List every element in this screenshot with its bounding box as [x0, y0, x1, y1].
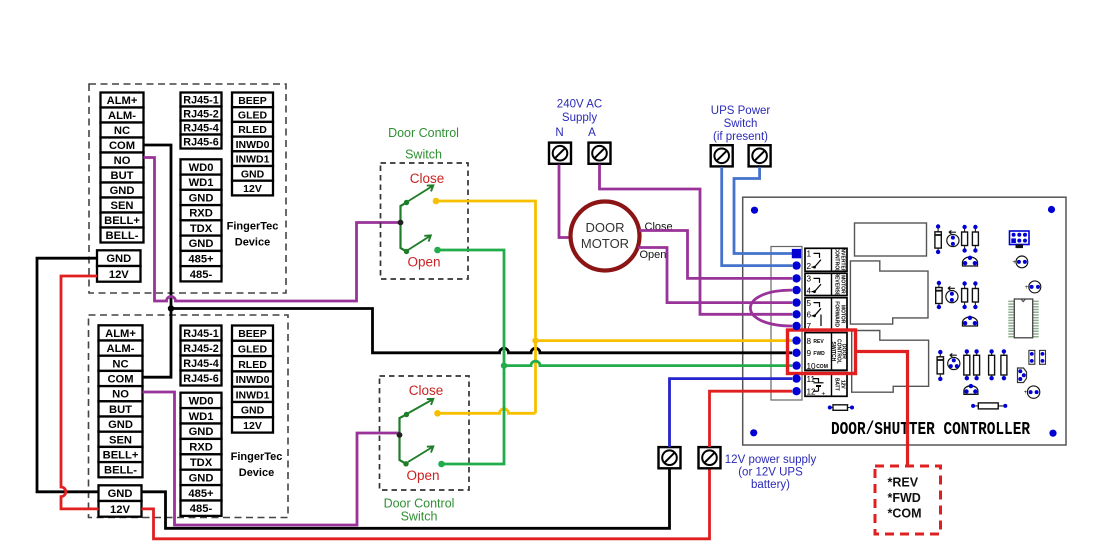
svg-text:A: A [588, 127, 596, 139]
svg-text:RJ45-1: RJ45-1 [183, 95, 218, 107]
terminal UPS-1 [711, 145, 733, 166]
pin RJ45-4 (dev1-rj) [181, 121, 222, 135]
diode D2 dome [963, 316, 978, 326]
wire purple NO device1 to door control switch 1 (jump over black) [144, 158, 401, 302]
pin GLED (dev1-led) [232, 107, 273, 122]
pad pin 4 [792, 286, 800, 294]
svg-text:INWD1: INWD1 [236, 389, 270, 401]
pin ALM- (dev2) [99, 341, 143, 356]
svg-text:COM: COM [107, 374, 133, 386]
svg-text:RLED: RLED [238, 124, 267, 136]
svg-text:GND: GND [106, 253, 131, 265]
wire red highlight to REV/FWD/COM note [856, 352, 908, 467]
svg-text:BEEP: BEEP [238, 328, 267, 340]
jumper block 1 [1029, 350, 1035, 364]
pin GND (dev1) [101, 183, 144, 198]
pin RJ45-6 (dev1-rj) [181, 135, 222, 149]
pin GND (dev2-io) [181, 470, 222, 485]
PCB corner hole top-right [1048, 206, 1055, 213]
svg-text:3: 3 [807, 275, 812, 284]
resistor R7 [937, 350, 943, 381]
svg-text:REV: REV [813, 339, 824, 345]
pin RLED (dev1-led) [232, 122, 273, 137]
terminal UPS-2 [749, 145, 771, 166]
pin WD1 (dev2-io) [181, 408, 222, 423]
pad pin 9 [792, 349, 800, 357]
pin RJ45-4 (dev2-rj) [181, 356, 222, 371]
pin WD0 (dev2-io) [181, 393, 222, 408]
pin INWD0 (dev2-led) [232, 371, 273, 386]
svg-text:RJ45-6: RJ45-6 [183, 137, 218, 149]
svg-text:Device: Device [239, 467, 274, 479]
pad pin 8 [792, 336, 800, 344]
red highlight box pins 8-10 [788, 330, 856, 374]
pin GND (dev1-io) [181, 236, 222, 251]
pin RJ45-1 (dev1-rj) [181, 93, 222, 107]
pin SEN (dev2) [99, 432, 143, 447]
pin BUT (dev1) [101, 168, 144, 183]
svg-text:RJ45-4: RJ45-4 [183, 358, 218, 370]
svg-text:BUT: BUT [111, 170, 134, 182]
svg-text:REVERSE: REVERSE [834, 272, 840, 297]
pin 485+ (dev1-io) [181, 251, 222, 266]
transistor Q1 [947, 230, 959, 246]
svg-text:GLED: GLED [238, 110, 268, 122]
pin 12V (dev2-led) [232, 417, 273, 432]
pin BELL- (dev1) [101, 228, 144, 243]
pin INWD1 (dev2-led) [232, 387, 273, 402]
svg-text:485+: 485+ [188, 254, 214, 266]
PCB corner hole top-left [751, 207, 758, 214]
diode D1 dome [963, 256, 978, 266]
battery symbol 12V BATT [813, 379, 824, 392]
pad pin 1 (square) [792, 249, 801, 258]
wire black GND link device1-device2 [37, 258, 99, 492]
terminal N [549, 143, 571, 164]
terminal 12V-1 [659, 447, 681, 468]
DCS1 junction with purple wire [398, 220, 404, 226]
svg-text:+: + [1024, 390, 1028, 396]
pin TDX (dev2-io) [181, 454, 222, 469]
pin RXD (dev2-io) [181, 439, 222, 454]
pin GLED (dev2-led) [232, 341, 273, 356]
svg-text:RXD: RXD [189, 442, 213, 454]
pin RJ45-2 (dev2-rj) [181, 341, 222, 356]
svg-text:battery): battery) [751, 479, 790, 491]
pin COM (dev1) [101, 138, 144, 153]
junction COM node [168, 305, 174, 311]
pad pin 6 [792, 310, 800, 318]
svg-text:*REV: *REV [888, 476, 919, 490]
svg-text:NO: NO [114, 155, 131, 167]
svg-text:GND: GND [189, 472, 214, 484]
svg-text:FORWARD: FORWARD [834, 301, 840, 327]
pad pin 10 [792, 361, 800, 369]
svg-text:Switch: Switch [401, 510, 438, 524]
wire black GND device2 to 12V supply terminal 1 [142, 468, 670, 529]
svg-text:UPS Power: UPS Power [711, 105, 771, 117]
pin ALM+ (dev1) [101, 93, 144, 108]
svg-text:12V power supply: 12V power supply [725, 454, 817, 466]
svg-text:12V: 12V [243, 183, 262, 195]
pin TDX (dev1-io) [181, 220, 222, 235]
transistor Q2 [1012, 256, 1027, 268]
pin NO (dev1) [101, 153, 144, 168]
svg-text:INWD0: INWD0 [236, 374, 270, 386]
transistor Q4 [1025, 281, 1041, 293]
svg-text:ALM-: ALM- [107, 343, 135, 355]
svg-text:RJ45-1: RJ45-1 [183, 328, 218, 340]
svg-text:ALM-: ALM- [108, 110, 136, 122]
pin BELL- (dev2) [99, 462, 143, 477]
controller PCB board outline [743, 197, 1066, 445]
wire purple A to controller pin 6 [600, 165, 793, 315]
svg-text:4: 4 [807, 286, 812, 295]
resistor R10 [989, 349, 995, 380]
pin RXD (dev1-io) [181, 205, 222, 220]
svg-text:GND: GND [108, 419, 133, 431]
pin INWD0 (dev1-led) [232, 137, 273, 152]
terminal 12V-2 [699, 447, 721, 468]
pin group box 12V/BATT [805, 372, 847, 396]
pad pin 11 [792, 374, 800, 382]
svg-text:RJ45-2: RJ45-2 [183, 109, 218, 121]
terminal A [589, 143, 611, 164]
svg-text:TDX: TDX [190, 457, 213, 469]
wire black COM link device1-device2 [143, 145, 172, 377]
svg-text:Close: Close [410, 171, 445, 186]
pin NC (dev2) [99, 356, 143, 371]
pin RJ45-2 (dev1-rj) [181, 107, 222, 121]
svg-text:FingerTec: FingerTec [231, 451, 283, 463]
pin WD1 (dev1-io) [181, 175, 222, 190]
svg-text:BELL+: BELL+ [103, 450, 139, 462]
svg-text:DOOR: DOOR [586, 220, 625, 235]
transistor Q6 pentagon [1018, 368, 1027, 383]
svg-text:WD0: WD0 [189, 162, 214, 174]
wire yellow into DCS2 close contact (jump over green) [438, 409, 536, 414]
DCS1 open contact dot [434, 247, 441, 254]
diode D3 dome [964, 384, 978, 394]
wire green branch to controller pin 10 (jump over yellow) [504, 361, 792, 366]
svg-text:NC: NC [112, 358, 128, 370]
svg-text:GND: GND [110, 185, 135, 197]
wire yellow close bus DCS1-DCS2 [436, 201, 536, 413]
FingerTec device 1 dashed enclosure [89, 84, 286, 293]
pin GND (dev2-io) [181, 424, 222, 439]
svg-text:RJ45-6: RJ45-6 [183, 373, 218, 385]
svg-text:MOTOR: MOTOR [581, 236, 629, 251]
jumper block 2 [1040, 350, 1046, 364]
svg-text:Door Control: Door Control [384, 497, 455, 511]
wire purple NO device2 to door control switch 2 [143, 392, 400, 525]
svg-text:1: 1 [807, 250, 812, 259]
pin GND (dev2-led) [232, 402, 273, 417]
svg-text:RXD: RXD [189, 208, 213, 220]
svg-text:485-: 485- [190, 503, 213, 515]
svg-text:12: 12 [807, 387, 817, 396]
resistor R9 [974, 349, 980, 380]
resistor R12 horizontal [971, 403, 1007, 409]
door control switch 1 dashed box [381, 163, 469, 279]
pad pin 2 [792, 261, 800, 269]
pad pin 5 [792, 298, 800, 306]
svg-text:Open: Open [407, 255, 440, 270]
svg-text:WD1: WD1 [189, 177, 214, 189]
transistor Q3 [946, 287, 958, 303]
resistor R3 [972, 225, 978, 253]
svg-text:5: 5 [807, 299, 812, 308]
svg-text:12V: 12V [243, 420, 262, 432]
svg-text:*FWD: *FWD [888, 491, 921, 505]
svg-text:Device: Device [235, 237, 270, 249]
resistor R8 [964, 349, 970, 380]
wire black COM to controller pin 9 (jumps over green+yellow) [171, 309, 792, 353]
svg-text:+: + [1025, 285, 1029, 291]
svg-text:N: N [555, 127, 563, 139]
pin BELL+ (dev1) [101, 213, 144, 228]
resistor R11 [1001, 349, 1007, 380]
relay contact symbol [812, 253, 822, 267]
relay K2 [850, 261, 928, 324]
svg-text:GND: GND [189, 238, 214, 250]
svg-text:9: 9 [807, 349, 812, 358]
resistor R4 [936, 281, 942, 309]
pin GND (dev1-pwr) [97, 250, 141, 266]
svg-text:8: 8 [807, 337, 812, 346]
svg-text:12V: 12V [110, 504, 130, 516]
svg-text:RJ45-4: RJ45-4 [183, 123, 218, 135]
svg-text:12V: 12V [109, 269, 129, 281]
pin WD0 (dev1-io) [181, 159, 222, 174]
svg-text:10: 10 [807, 362, 817, 371]
svg-text:SEN: SEN [110, 200, 133, 212]
pin 485- (dev2-io) [181, 501, 222, 516]
red dashed note box [875, 466, 941, 534]
pin group box MOTOR/REVERSE [805, 273, 847, 295]
svg-text:INWD1: INWD1 [236, 154, 270, 166]
svg-text:COM: COM [816, 364, 828, 370]
pin RJ45-6 (dev2-rj) [181, 371, 222, 386]
pin GND (dev2) [99, 417, 143, 432]
relay K3 [852, 331, 929, 393]
svg-text:RLED: RLED [238, 359, 267, 371]
svg-text:2: 2 [807, 262, 812, 271]
wire yellow branch to controller pin 8 [536, 339, 793, 342]
svg-text:Open: Open [640, 249, 667, 261]
pin GND (dev2-pwr) [99, 485, 142, 501]
pin INWD1 (dev1-led) [232, 151, 273, 166]
pin BEEP (dev1-led) [232, 93, 273, 108]
wire blue UPS terminal 1 to controller pin 2 [722, 167, 792, 266]
svg-text:BELL+: BELL+ [104, 215, 140, 227]
PCB corner hole bottom-left [750, 429, 757, 436]
FingerTec device 2 dashed enclosure [89, 315, 289, 518]
svg-text:SEN: SEN [109, 434, 132, 446]
svg-text:ALM+: ALM+ [107, 95, 138, 107]
pin BEEP (dev2-led) [232, 326, 273, 341]
resistor R5 [962, 281, 968, 309]
resistor R13 horizontal [828, 405, 854, 411]
svg-text:GND: GND [189, 193, 214, 205]
pin 485- (dev1-io) [181, 266, 222, 281]
svg-text:TDX: TDX [190, 223, 213, 235]
DCS1 close contact dot [433, 198, 440, 205]
pin 12V (dev1-led) [232, 181, 273, 196]
svg-text:GND: GND [241, 168, 265, 180]
pad pin 12 [792, 387, 800, 395]
DCS2 junction with purple wire [397, 432, 403, 438]
pad pin 3 [792, 274, 800, 282]
DCS1 open blade arrow [408, 235, 431, 250]
svg-text:(if present): (if present) [713, 131, 768, 143]
svg-text:Supply: Supply [562, 112, 597, 124]
pin COM (dev2) [99, 371, 143, 386]
pin group box DOOR/CONTROL/SWITCH [805, 333, 847, 371]
svg-text:Door Control: Door Control [388, 126, 459, 140]
resistor R6 [972, 281, 978, 309]
IC U1 [1008, 299, 1038, 338]
pin RLED (dev2-led) [232, 356, 273, 371]
svg-text:485+: 485+ [188, 488, 214, 500]
svg-text:CONTROL: CONTROL [834, 247, 840, 272]
svg-text:BUT: BUT [109, 404, 132, 416]
svg-text:RJ45-2: RJ45-2 [183, 343, 218, 355]
wire blue 12V supply to controller pin 11 [670, 379, 793, 447]
transistor Q5 [948, 353, 960, 369]
svg-text:FingerTec: FingerTec [227, 221, 279, 233]
svg-text:GND: GND [241, 405, 265, 417]
junction green node [501, 362, 507, 368]
pin group box MOTOR/FORWARD [805, 298, 847, 331]
svg-text:240V AC: 240V AC [557, 99, 602, 111]
svg-text:Open: Open [406, 468, 439, 483]
door control switch 2 dashed box [380, 376, 470, 490]
svg-text:SWITCH: SWITCH [830, 342, 836, 362]
svg-text:+: + [822, 391, 826, 398]
svg-text:DOOR/SHUTTER CONTROLLER: DOOR/SHUTTER CONTROLLER [831, 418, 1030, 439]
svg-text:INWD0: INWD0 [236, 139, 270, 151]
svg-text:+: + [1012, 260, 1016, 266]
pin 485+ (dev2-io) [181, 485, 222, 500]
pin ALM+ (dev2) [99, 325, 143, 340]
pin 12V (dev2-pwr) [99, 501, 142, 517]
relay K1 [855, 223, 927, 256]
svg-text:485-: 485- [190, 269, 213, 281]
wire green open bus DCS1-DCS2 [438, 250, 505, 464]
pin ALM- (dev1) [101, 108, 144, 123]
svg-text:BELL-: BELL- [106, 230, 139, 242]
svg-text:ALM+: ALM+ [105, 328, 136, 340]
pin6-pin7 link line [820, 315, 822, 327]
DCS2 open contact dot [438, 461, 445, 468]
wire purple motor close to controller pin 3 [639, 231, 792, 279]
svg-text:WD1: WD1 [189, 411, 214, 423]
door motor M1 [571, 202, 640, 271]
pin BELL+ (dev2) [99, 447, 143, 462]
resistor R2 [962, 225, 968, 253]
pin GND (dev1-led) [232, 166, 273, 181]
DCS1 common bar [401, 203, 407, 252]
terminal pad strip box [771, 247, 802, 401]
svg-text:GLED: GLED [238, 343, 268, 355]
pin SEN (dev1) [101, 198, 144, 213]
svg-text:GND: GND [189, 426, 214, 438]
DCS2 close contact dot [434, 410, 441, 417]
svg-text:Switch: Switch [405, 148, 442, 162]
wire purple loop pin 4 to pin 7 [750, 290, 792, 326]
DCS2 open blade arrow [408, 446, 433, 462]
pin NC (dev1) [101, 123, 144, 138]
pad pin 7 [792, 322, 800, 330]
DCS2 close blade arrow [409, 399, 434, 413]
pin NO (dev2) [99, 386, 143, 401]
junction yellow node [532, 337, 538, 343]
wire purple N to motor [559, 165, 570, 238]
svg-text:BELL-: BELL- [104, 465, 137, 477]
DCS2 common bar [400, 415, 407, 464]
DCS1 close blade arrow [409, 185, 434, 201]
svg-text:GND: GND [108, 488, 133, 500]
svg-text:BATT: BATT [834, 378, 840, 391]
pin group box INVERTER/CONTROL [805, 248, 847, 271]
wire purple motor open to controller pin 5 [638, 248, 792, 303]
relay contact symbol [812, 303, 822, 316]
wire red 12V supply to controller pin 12 [710, 391, 793, 447]
pin BUT (dev2) [99, 401, 143, 416]
svg-text:Switch: Switch [724, 118, 758, 130]
svg-text:6: 6 [807, 311, 812, 320]
relay contact symbol [812, 278, 822, 291]
PCB corner hole bottom-right [1049, 430, 1056, 437]
wire red 12V device2 to supply terminal 2 [142, 468, 710, 539]
svg-text:*COM: *COM [888, 507, 922, 521]
transistor Q7 [1024, 386, 1040, 398]
wire red 12V link device1-device2 (jump over black) [61, 276, 99, 509]
svg-text:NC: NC [114, 125, 130, 137]
pin RJ45-1 (dev2-rj) [181, 326, 222, 341]
resistor R1 [935, 224, 941, 254]
svg-text:BEEP: BEEP [238, 95, 267, 107]
svg-text:(or 12V UPS: (or 12V UPS [738, 467, 803, 479]
svg-text:Close: Close [409, 383, 444, 398]
wire blue UPS terminal 2 to controller pin 1 [734, 167, 792, 254]
pin 12V (dev1-pwr) [97, 266, 141, 282]
connector J1 [1010, 231, 1030, 248]
svg-text:FWD: FWD [813, 351, 825, 357]
pin GND (dev1-io) [181, 190, 222, 205]
svg-text:COM: COM [109, 140, 135, 152]
svg-text:NO: NO [112, 389, 129, 401]
svg-text:WD0: WD0 [189, 395, 214, 407]
